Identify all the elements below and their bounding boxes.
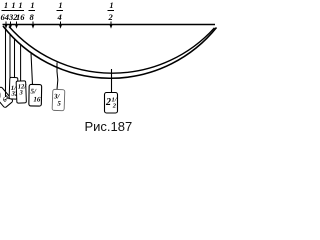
svg-text:1: 1	[12, 1, 16, 10]
tag3	[16, 81, 28, 103]
ruler line	[3, 24, 216, 26]
svg-text:Рис.187: Рис.187	[85, 119, 133, 134]
svg-text:16: 16	[16, 12, 25, 22]
string to tag6 with hook tick	[111, 69, 113, 93]
label 1/4	[57, 1, 64, 22]
tick arrow 1/8	[32, 22, 35, 29]
label 1/64	[1, 1, 11, 22]
label 1/32	[8, 1, 18, 22]
svg-text:1: 1	[31, 1, 35, 10]
tag4	[29, 84, 42, 106]
string to tag4	[31, 53, 33, 85]
svg-text:2: 2	[108, 12, 114, 22]
tag6	[105, 93, 118, 114]
tick arrow 1/4	[59, 22, 62, 29]
string to tag2 left	[14, 39, 16, 78]
svg-text:4: 4	[57, 12, 62, 22]
svg-text:16: 16	[33, 95, 41, 103]
tag5	[52, 89, 65, 110]
svg-text:2: 2	[105, 97, 111, 108]
tick arrow 1/32	[9, 22, 12, 29]
bowl inner arc	[9, 27, 215, 74]
string to tag 1/64	[5, 29, 7, 97]
tag1 rotated	[0, 86, 13, 108]
tick arrow 1/64	[5, 22, 8, 29]
label 1/2	[108, 1, 115, 22]
svg-text:1: 1	[110, 1, 114, 10]
string to tag3	[20, 45, 22, 82]
svg-text:1: 1	[19, 1, 23, 10]
tag2	[9, 77, 19, 99]
svg-text:1: 1	[59, 1, 63, 10]
svg-text:64: 64	[1, 12, 10, 22]
svg-text:2: 2	[112, 103, 117, 110]
tick arrow 1/16	[15, 22, 18, 29]
bowl outer arc	[3, 26, 217, 78]
label 1/16	[16, 1, 25, 22]
svg-text:1: 1	[4, 1, 8, 10]
string to tag 1/32	[9, 34, 11, 78]
string to tag5	[56, 63, 59, 90]
label 1/8	[29, 1, 36, 22]
tick arrow 1/2	[110, 22, 113, 29]
